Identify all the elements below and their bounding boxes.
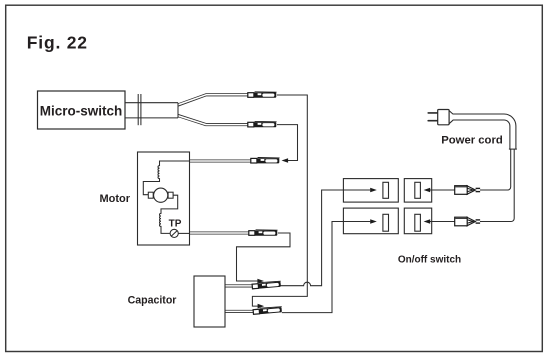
svg-text:On/off switch: On/off switch [398, 254, 461, 265]
svg-text:TP: TP [169, 218, 182, 229]
svg-text:Capacitor: Capacitor [128, 295, 177, 307]
svg-text:Power cord: Power cord [441, 134, 503, 146]
svg-text:Fig. 22: Fig. 22 [27, 32, 88, 52]
svg-text:Motor: Motor [99, 193, 130, 205]
svg-text:Micro-switch: Micro-switch [40, 103, 123, 118]
